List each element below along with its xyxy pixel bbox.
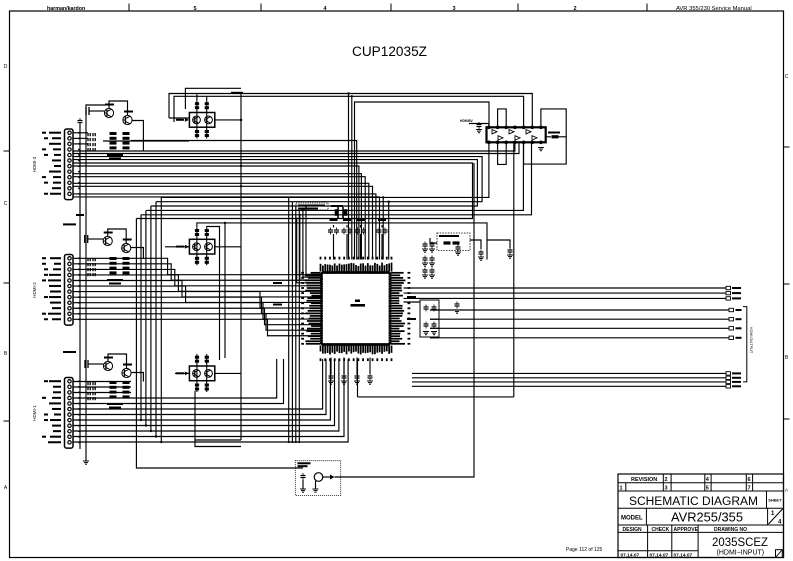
filter component above IC <box>336 207 347 219</box>
connector JP2 HDMI-2 pin 1 label b <box>42 257 46 259</box>
connector JP1 HDMI-3 pin 4 circle <box>68 148 71 151</box>
C above IC 3a <box>355 228 360 235</box>
wire bus M line 4 vertical <box>145 210 147 425</box>
C NE right 2 <box>479 250 484 257</box>
C NE cluster 5 <box>423 268 428 275</box>
quad block U4 transistor B <box>205 370 213 378</box>
title row line <box>618 507 784 509</box>
connector JP3 HDMI-1 pin 7 label <box>54 414 61 416</box>
connector JP1 HDMI-3 pin 2 circle <box>68 137 71 140</box>
C below IC 3 <box>355 374 360 381</box>
bus A1 net label <box>732 287 741 289</box>
wire IC top cap 3 upper <box>360 225 362 228</box>
junction long vertical 1 <box>288 441 290 443</box>
wire conn3 pin 2 <box>73 386 131 388</box>
quad block U3 transistor B <box>205 243 213 251</box>
svg-text:2035SCEZ: 2035SCEZ <box>712 535 768 549</box>
wire IC top cap 3 <box>360 234 362 260</box>
U5 right wire loop <box>524 109 567 164</box>
wire conn2 pin 7 staircase <box>73 292 322 308</box>
C HDMI5V filter cap <box>477 122 482 129</box>
wire IC bottom cap 2 <box>343 358 345 375</box>
connector JP3 HDMI-1 pin 10 circle <box>68 430 71 433</box>
U5 top pin 3 <box>505 126 508 129</box>
bus A2 terminal <box>726 291 731 294</box>
U5 top bridge wire <box>498 109 507 127</box>
section2 pair base wire <box>88 238 103 240</box>
wire long vertical left of IC 3 <box>295 206 297 442</box>
section3 pair Qa ref label <box>104 357 113 359</box>
net names above IC 2 <box>298 208 318 210</box>
wire IC top cap 2 upper <box>346 225 348 228</box>
junction M1 drop <box>382 196 384 198</box>
buffer strip U5 body <box>487 127 546 142</box>
svg-text:AVR 355/230 Service Manual: AVR 355/230 Service Manual <box>676 6 752 12</box>
wire conn1 pair1a to U5 <box>73 142 515 151</box>
connector JP2 HDMI-2 pin 3 circle <box>68 268 71 271</box>
section3 pair bias resistor <box>85 360 88 368</box>
wire drop ring2 to IC top <box>351 96 353 259</box>
wire conn3 pin 6 channel <box>73 359 323 409</box>
svg-text:CHECK: CHECK <box>652 527 670 533</box>
connector JP1 HDMI-3 pin 5 circle <box>68 153 71 156</box>
quad block U2 input arrow <box>185 118 189 122</box>
wire IC bottom cap 3 <box>356 358 358 375</box>
quad block U4 coupling caps <box>195 356 209 391</box>
wire ring to quad1 <box>169 117 189 119</box>
C NE cluster 3 ground <box>422 263 428 266</box>
U5 top pin 2 <box>496 126 499 129</box>
connector JP1 HDMI-3 pin 6 circle <box>68 159 71 162</box>
svg-text:A: A <box>785 488 788 493</box>
C above IC 2 label <box>343 219 351 221</box>
connector JP1 HDMI-3 pin 4 label <box>53 148 61 150</box>
U5 gate 1 bottom <box>498 136 503 140</box>
U5 bottom pin 2 <box>496 141 499 144</box>
C NE cluster 5 ground <box>422 275 428 278</box>
U5 top pin 4 <box>514 126 517 129</box>
svg-text:7: 7 <box>748 486 751 492</box>
section1 pair collector wire <box>109 101 128 115</box>
wire pair3 output <box>132 373 144 382</box>
wire bus right B4 <box>430 337 729 339</box>
connector JP2 HDMI-2 pin 2 label <box>54 263 61 265</box>
wire conn1 pair2a wrap bus M2 <box>73 157 482 202</box>
sheet cell divider <box>766 491 768 508</box>
oscillator output wire <box>323 476 330 478</box>
bus B3 terminal <box>729 327 734 330</box>
oscillator label <box>298 462 311 464</box>
wire vertical x225 <box>224 223 226 358</box>
U5 top pin 7 <box>540 126 543 129</box>
wire bus right B3 <box>430 327 729 329</box>
U5 gate 1 top <box>492 130 497 134</box>
junction M4 channel <box>145 424 147 426</box>
border tick <box>517 4 519 12</box>
wire conn2 pin 9 staircase <box>73 303 322 319</box>
U5 bottom pin 4 <box>514 141 517 144</box>
C above IC 4a <box>377 228 382 235</box>
wire quad3 right <box>215 372 241 374</box>
wire bus M line 6 to oscillator <box>136 219 303 469</box>
C above IC 4 label <box>378 219 386 221</box>
connector JP3 HDMI-1 pin 9 label <box>52 425 61 427</box>
wire conn2 pin 12 staircase <box>73 319 322 335</box>
C SE 3 <box>424 322 429 329</box>
connector JP2 HDMI-2 pin 4 label b <box>44 274 48 276</box>
C NE far <box>508 248 513 255</box>
svg-text:HDMI OUTPUT: HDMI OUTPUT <box>749 327 753 354</box>
connector JP1 HDMI-3 pin 12 label b <box>44 193 48 195</box>
connector JP3 HDMI-1 pin 4 circle <box>68 396 71 399</box>
C SE 1 <box>424 305 429 312</box>
C NE cluster 2 ground <box>429 249 435 252</box>
section2 network resistor arrays <box>110 257 130 274</box>
quad block U4 transistor A <box>193 370 201 378</box>
C NE cluster 4 ground <box>429 263 435 266</box>
wire drop M2 to IC top <box>388 202 390 260</box>
section2 pair Qa ref label <box>104 232 113 234</box>
C below IC 2 ground <box>341 381 347 384</box>
C above IC 4b <box>383 228 388 235</box>
connector JP2 HDMI-2 pin 1 circle <box>68 257 71 260</box>
wire U5 output to bus M4 <box>146 142 524 210</box>
svg-text:HDMI5V: HDMI5V <box>460 119 474 123</box>
svg-text:6: 6 <box>748 477 751 483</box>
svg-text:DRAWING NO: DRAWING NO <box>714 527 747 533</box>
wire conn1 line 8 drop to IC top <box>73 177 365 260</box>
bus C2 terminal <box>726 376 731 379</box>
svg-text:5: 5 <box>193 6 196 12</box>
C NE far ground <box>507 255 513 258</box>
C NE cluster 1 ground <box>422 249 428 252</box>
U5 gate 2 bottom <box>515 136 520 140</box>
connector JP3 HDMI-1 pin 12 circle <box>68 441 71 444</box>
connector JP3 HDMI-1 pin 7 circle <box>68 413 71 416</box>
C SE right <box>455 302 460 309</box>
connector JP2 HDMI-2 pin 8 label <box>49 296 61 298</box>
wire ring line 1 to U5 <box>169 94 532 128</box>
title block outline <box>618 474 784 558</box>
wire conn3 pin 11 channel <box>73 359 344 437</box>
section2 pair Q b <box>122 243 131 252</box>
section1 network value label <box>107 154 123 156</box>
quad block U4 pin stub wires <box>197 354 207 392</box>
design col divider <box>697 525 699 558</box>
U5 output resistor R <box>552 135 559 138</box>
aux net label <box>76 214 84 216</box>
connector JP3 HDMI-1 pin 8 label b <box>44 419 48 421</box>
C NE cluster 3 <box>423 256 428 263</box>
net label strip above IC <box>296 203 328 210</box>
svg-text:D: D <box>4 64 8 70</box>
bus C1 terminal <box>726 372 731 375</box>
C above IC 1 label <box>330 219 338 221</box>
connector JP2 HDMI-2 pin 12 circle <box>68 318 71 321</box>
NE wire 2 <box>487 240 510 248</box>
wire quad1 right <box>215 119 241 121</box>
wire oscillator to bus <box>335 163 475 477</box>
section3 pair Qb ref label <box>123 364 132 366</box>
svg-text:C: C <box>4 201 8 207</box>
section2 pair bias resistor <box>85 235 88 243</box>
quad block U4 body <box>189 366 214 381</box>
section1 network value label 2 <box>109 158 121 160</box>
wire drop M4 to IC left <box>303 210 322 277</box>
junction long vertical 2 <box>291 441 293 443</box>
U5 gate 3 bottom <box>532 136 537 140</box>
wire IC top cap 4 <box>381 234 383 260</box>
quad block U3 coupling caps <box>195 229 209 264</box>
wire conn2 pin 5 staircase <box>73 281 322 297</box>
wire quad1 top stub 1 <box>196 94 198 101</box>
connector JP2 HDMI-2 pin 6 label <box>49 285 61 287</box>
junction M2 channel <box>155 435 157 437</box>
C NE right 2 ground <box>478 257 484 260</box>
wire bus B2 stub <box>430 318 439 320</box>
junction M3 drop <box>305 205 307 207</box>
wire conn1 stub <box>73 132 88 134</box>
connector JP3 HDMI-1 pin 8 circle <box>68 418 71 421</box>
connector JP2 HDMI-2 pin 12 label <box>52 318 61 320</box>
connector JP1 HDMI-3 pin 7 label <box>54 165 61 167</box>
C below IC 1 <box>329 374 334 381</box>
wire conn1 line 7 drop to IC top <box>73 174 361 260</box>
svg-text:5: 5 <box>706 486 709 492</box>
wire bottom loop lower <box>195 391 241 447</box>
connector JP2 HDMI-2 pin 2 label b <box>42 263 46 265</box>
junction long vertical 3 <box>295 441 297 443</box>
wire ring line 2 to U5 <box>174 96 524 127</box>
U5 bottom pin 7 <box>540 141 543 144</box>
connector JP2 HDMI-2 pin 3 label b <box>44 268 48 270</box>
connector JP2 HDMI-2 pin 9 label <box>50 302 61 304</box>
wire bus right B2 <box>430 318 729 320</box>
C below IC 4 ground <box>367 381 373 384</box>
bus B1 terminal <box>729 308 734 311</box>
C below IC 3 ground <box>354 381 360 384</box>
junction M5 channel <box>140 419 142 421</box>
crystal X1 <box>314 473 323 482</box>
wire U5 pin1 to bus M1 <box>161 142 489 197</box>
net label +5V arrow <box>63 351 76 353</box>
HDMI5V cap ground <box>476 130 482 133</box>
quad block U3 input arrow <box>185 245 189 249</box>
connector JP1 HDMI-3 pin 1 label <box>49 132 61 134</box>
IC U1 pin number specks <box>301 257 410 361</box>
wire quad1 top stub 2 <box>206 96 208 100</box>
bus B1 net label <box>736 309 742 311</box>
connector JP3 HDMI-1 pin 11 circle <box>68 435 71 438</box>
wire conn2 pin 6 staircase <box>73 286 322 302</box>
U5 gate 3 top <box>526 130 531 134</box>
border tick <box>784 283 790 285</box>
connector JP1 HDMI-3 pin 10 label b <box>44 182 48 184</box>
revision checkbox slash <box>776 550 783 558</box>
quad block U2 coupling caps <box>195 102 209 137</box>
wire bus right A2 <box>404 292 727 294</box>
junction M3 channel <box>150 430 152 432</box>
bus A2 net label <box>732 292 741 294</box>
wire long vertical left of IC 1 <box>288 197 290 442</box>
svg-text:07.14.07: 07.14.07 <box>650 552 669 558</box>
U5 top pin 6 <box>531 126 534 129</box>
U5 output wire <box>546 136 551 138</box>
section1 network resistor arrays <box>110 132 130 149</box>
connector JP1 HDMI-3 pin 1 label b <box>42 132 46 134</box>
revision divider <box>745 474 747 491</box>
section3 network value label <box>107 403 123 405</box>
quad block U2 transistor B <box>205 116 213 124</box>
wire conn1 line 10 drop to IC top <box>73 186 373 259</box>
svg-text:REVISION: REVISION <box>631 477 657 483</box>
wire quad2 top to vertical <box>207 227 220 361</box>
connector JP1 HDMI-3 pin 3 label <box>49 143 61 145</box>
svg-text:HDMI-1: HDMI-1 <box>32 405 37 421</box>
section1 pair bias resistor <box>86 107 89 115</box>
connector JP2 HDMI-2 pin 11 label b <box>42 313 46 315</box>
connector JP3 HDMI-1 pin 2 circle <box>68 385 71 388</box>
oscillator cap ground <box>300 489 306 492</box>
bus A1 terminal <box>726 286 731 289</box>
wire IC top cap 2 <box>346 234 348 260</box>
wire conn2 pin 3 staircase <box>73 269 322 285</box>
svg-text:MODEL: MODEL <box>621 516 643 522</box>
connector JP1 HDMI-3 pin 9 circle <box>68 176 71 179</box>
wire quad2 top to IC <box>197 223 487 260</box>
wire conn2 pin 8 staircase <box>73 297 322 313</box>
quad block U3 input label <box>176 246 184 248</box>
C NE right ground <box>455 252 461 255</box>
wire conn1 line 6 drop to IC top <box>73 166 359 260</box>
wire IC bottom drop <box>357 359 359 397</box>
U5 bottom pin 5 <box>522 141 525 144</box>
net label 3-C <box>273 304 282 306</box>
connector JP1 HDMI-3 pin 5 label b <box>44 154 48 156</box>
wire drop M3 to IC left <box>306 206 322 274</box>
svg-text:HDMI-2: HDMI-2 <box>32 282 37 298</box>
C SE right ground <box>454 310 460 313</box>
connector JP2 HDMI-2 pin 6 circle <box>68 284 71 287</box>
C above IC 1a <box>328 228 333 235</box>
bus B3 net label <box>736 327 742 329</box>
svg-text:SCHEMATIC DIAGRAM: SCHEMATIC DIAGRAM <box>629 496 758 508</box>
connector JP2 HDMI-2 rail junctions <box>78 257 80 320</box>
title block revision row line 2 <box>618 490 784 492</box>
connector JP3 HDMI-1 pin 8 label <box>50 419 61 421</box>
wire long vertical bus A <box>240 94 242 441</box>
connector JP1 HDMI-3 pin 1 circle <box>68 131 71 134</box>
connector JP3 HDMI-1 rail junctions <box>78 380 80 443</box>
connector JP3 HDMI-1 pin 10 label <box>53 430 61 432</box>
section1 pair Qb ref label <box>124 111 133 113</box>
svg-text:AVR255/355: AVR255/355 <box>671 511 743 525</box>
svg-text:2: 2 <box>665 477 668 483</box>
wire drop M5 to IC left <box>300 215 322 280</box>
section2 pair Qb ref label <box>123 239 132 241</box>
wire drop M6 to IC left <box>297 219 322 283</box>
border tick <box>260 4 262 12</box>
quad block U2 body <box>189 113 214 128</box>
wire drop M1 to IC top <box>382 197 384 259</box>
border tick <box>784 146 790 148</box>
connector JP1 HDMI-3 pin 9 label <box>53 176 61 178</box>
C below IC 1 ground <box>328 381 334 384</box>
C on aux rail <box>78 118 83 125</box>
bus C3 net label <box>732 381 741 383</box>
section1 network capacitors <box>88 133 95 151</box>
wire long vertical left of IC 4 <box>298 210 300 442</box>
crystal ground wire <box>315 481 317 489</box>
wire IC top cap 1 upper <box>333 225 335 228</box>
section2 network value label 2 <box>109 283 121 285</box>
connector JP2 HDMI-2 pin 7 label <box>50 291 61 293</box>
section1 pair base wire <box>89 110 104 112</box>
wire conn1 stub <box>73 137 88 139</box>
connector JP3 HDMI-1 pin 4 label <box>52 397 61 399</box>
U5 bottom pin 1 <box>488 141 491 144</box>
connector JP1 HDMI-3 pin 9 label b <box>42 176 46 178</box>
bus C1 net label <box>732 372 741 374</box>
wire conn3 pin 1 <box>73 381 131 383</box>
connector JP3 HDMI-1 pin 7 label b <box>44 414 48 416</box>
bus C4 terminal <box>726 385 731 388</box>
svg-text:1: 1 <box>620 486 623 492</box>
junction M6 drop <box>296 217 298 219</box>
wire conn3 pin 9 channel <box>73 359 335 426</box>
wire IC bottom cap 4 <box>369 358 371 375</box>
svg-text:3: 3 <box>452 6 455 12</box>
connector JP2 HDMI-2 pin 7 circle <box>68 290 71 293</box>
connector JP2 HDMI-2 pin 9 circle <box>68 301 71 304</box>
connector JP2 HDMI-2 pin 5 label <box>48 279 61 281</box>
section3 pair base wire <box>88 363 103 365</box>
connector JP3 HDMI-1 pin 12 label <box>48 441 61 443</box>
section2 pair collector wire <box>108 229 127 243</box>
connector JP3 HDMI-1 pin 1 label <box>49 380 61 382</box>
wire quad2 right <box>215 246 241 248</box>
bus A3 terminal <box>726 297 731 300</box>
wire conn3 pin 8 channel <box>73 359 330 420</box>
wire conn1 line 12 drop to IC top <box>73 197 380 260</box>
junction x225 <box>224 222 226 224</box>
wire IC bottom cap 1 <box>330 358 332 375</box>
connector JP1 HDMI-3 pin 2 label b <box>44 137 48 139</box>
component box NE outline <box>437 233 470 251</box>
wire bus right C3 <box>412 381 726 383</box>
connector JP3 HDMI-1 pin 11 label b <box>42 436 46 438</box>
junction M2 drop <box>388 201 390 203</box>
quad block U4 input arrow <box>185 372 189 376</box>
connector JP2 HDMI-2 pin 11 label <box>48 313 61 315</box>
wire conn1 line 9 drop to IC top <box>73 183 369 259</box>
junction bus A x B1 <box>240 165 242 167</box>
C above IC 1b <box>334 228 339 235</box>
wire IC top to U5 pin1 <box>355 102 490 260</box>
C above IC 2a <box>342 228 347 235</box>
U5 gate 2 top <box>509 130 514 134</box>
connector JP3 HDMI-1 pin 6 circle <box>68 407 71 410</box>
connector JP3 HDMI-1 pin 5 circle <box>68 402 71 405</box>
net names above IC <box>298 205 325 207</box>
revision divider <box>752 474 754 491</box>
connector JP1 HDMI-3 pin 8 label <box>49 171 61 173</box>
connector JP2 HDMI-2 pin 4 circle <box>68 273 71 276</box>
wire IC top cap 1 <box>333 234 335 260</box>
connector JP1 HDMI-3 pin 12 label <box>50 193 61 195</box>
connector JP3 HDMI-1 pin 9 circle <box>68 424 71 427</box>
svg-text:(HDMI−INPUT): (HDMI−INPUT) <box>717 550 765 557</box>
